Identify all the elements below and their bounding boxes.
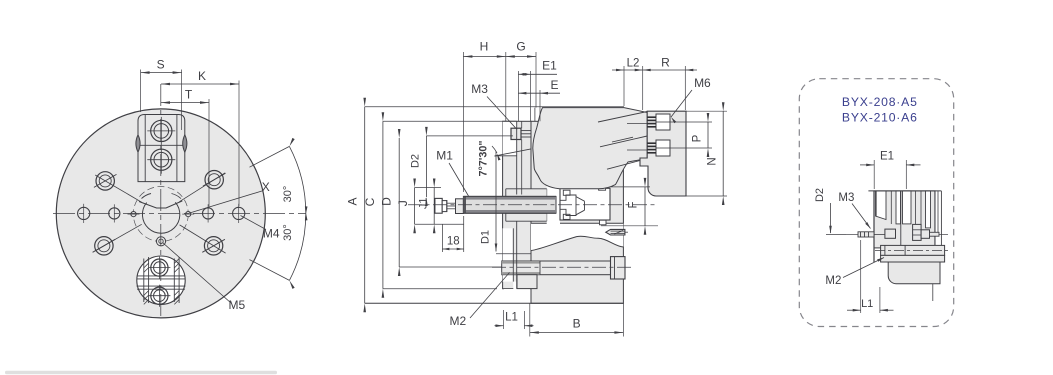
svg-text:L1: L1: [861, 298, 873, 310]
svg-text:T: T: [185, 87, 193, 101]
svg-text:E1: E1: [542, 59, 557, 73]
svg-text:E1: E1: [880, 151, 894, 163]
svg-text:B: B: [573, 317, 581, 331]
svg-text:18: 18: [447, 236, 460, 248]
svg-text:L2: L2: [627, 58, 640, 70]
svg-text:F: F: [628, 201, 640, 208]
svg-text:K: K: [198, 69, 206, 83]
svg-text:M2: M2: [825, 275, 841, 287]
svg-text:C: C: [363, 197, 377, 206]
svg-text:BYX-208·A5: BYX-208·A5: [842, 95, 918, 109]
svg-text:J1: J1: [417, 197, 429, 209]
svg-text:D1: D1: [480, 230, 492, 244]
svg-text:M3: M3: [471, 82, 488, 96]
svg-text:P: P: [692, 134, 704, 142]
svg-text:30°: 30°: [282, 224, 294, 241]
svg-text:D2: D2: [410, 154, 422, 168]
svg-text:M4: M4: [263, 226, 280, 240]
svg-text:S: S: [157, 57, 165, 71]
svg-text:J: J: [396, 200, 410, 206]
svg-text:M1: M1: [436, 149, 453, 163]
svg-text:R: R: [661, 56, 670, 70]
svg-text:M2: M2: [449, 314, 466, 328]
svg-text:BYX-210·A6: BYX-210·A6: [842, 110, 918, 124]
svg-text:D: D: [380, 197, 394, 206]
svg-text:30°: 30°: [282, 186, 294, 203]
svg-text:M5: M5: [228, 298, 245, 312]
svg-text:L1: L1: [505, 312, 518, 324]
svg-text:7°7'30": 7°7'30": [478, 140, 490, 176]
svg-text:E: E: [550, 78, 558, 92]
svg-text:X: X: [262, 180, 270, 194]
svg-text:M6: M6: [694, 76, 711, 90]
svg-text:M3: M3: [838, 192, 854, 204]
svg-text:H: H: [480, 40, 489, 54]
svg-text:D2: D2: [814, 188, 826, 202]
svg-text:A: A: [346, 197, 360, 205]
svg-text:N: N: [707, 157, 719, 165]
svg-text:G: G: [516, 40, 525, 54]
